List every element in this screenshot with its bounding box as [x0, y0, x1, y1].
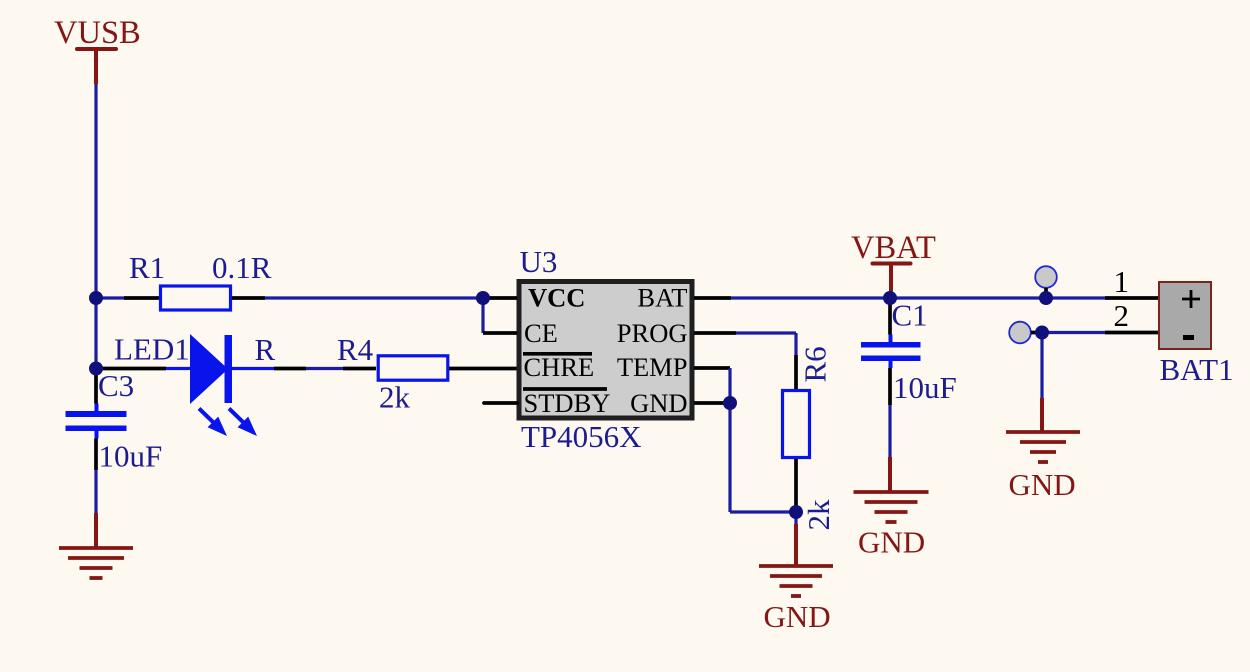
svg-text:GND: GND [1009, 467, 1076, 502]
wire R4 to U3 CHRE [449, 367, 517, 371]
node junction LED row [89, 362, 103, 376]
svg-text:R1: R1 [129, 250, 165, 285]
svg-text:R: R [255, 332, 276, 367]
no-ERC marker circle row1 [1035, 266, 1057, 293]
wire R6 junction to ground stem [794, 506, 797, 524]
pin GND [694, 401, 724, 405]
resistor R4 [337, 332, 448, 415]
wire BAT row [731, 296, 1105, 299]
node junction row2 [1035, 326, 1049, 340]
svg-text:10uF: 10uF [99, 439, 163, 474]
wire PROG to R6 [736, 333, 796, 355]
svg-text:R6: R6 [798, 346, 833, 382]
resistor R1 [124, 250, 272, 310]
svg-text:PROG: PROG [617, 318, 688, 348]
node junction VUSB/R1 [89, 291, 103, 305]
power port VBAT [851, 230, 936, 298]
pin to BAT1 pin2 [1105, 331, 1158, 335]
svg-text:10uF: 10uF [893, 370, 957, 405]
svg-text:GND: GND [630, 388, 687, 418]
svg-text:GND: GND [764, 599, 831, 634]
svg-text:VCC: VCC [528, 283, 585, 313]
svg-text:U3: U3 [520, 244, 558, 279]
svg-text:BAT1: BAT1 [1160, 352, 1234, 387]
pin CE [483, 331, 517, 335]
pin PROG [694, 331, 736, 335]
svg-text:CE: CE [524, 318, 558, 348]
wire LED to R4 [274, 367, 306, 371]
wire C3 to ground [94, 470, 97, 513]
ground under R6 [759, 524, 833, 634]
svg-text:0.1R: 0.1R [212, 250, 272, 285]
no-ERC marker circle row2 [1009, 322, 1036, 344]
svg-text:C1: C1 [892, 298, 928, 333]
capacitor C1 [861, 298, 957, 406]
pin STDBY stub [484, 401, 517, 405]
svg-text:LED1: LED1 [114, 332, 190, 367]
wire row2 down to ground [1040, 333, 1043, 399]
svg-text:GND: GND [858, 525, 925, 560]
pin to BAT1 pin1 [1105, 296, 1158, 300]
pin BAT [694, 296, 731, 300]
pin TEMP [694, 366, 730, 370]
diode LED1 [96, 332, 274, 437]
ground under C1 [854, 457, 929, 560]
svg-text:VUSB: VUSB [54, 15, 141, 51]
connector BAT1 [1159, 282, 1234, 387]
node junction VBAT [883, 291, 897, 305]
capacitor C3 [66, 368, 163, 474]
node junction at U3 VCC/CE [476, 291, 490, 305]
svg-text:2: 2 [1114, 298, 1130, 333]
wire row A left [96, 296, 124, 299]
ground left [59, 513, 133, 578]
wire TEMP down [730, 368, 796, 512]
wire row2 to BAT1 [1042, 331, 1105, 334]
svg-text:R4: R4 [337, 332, 374, 367]
svg-text:2k: 2k [801, 499, 836, 531]
svg-text:1: 1 [1114, 264, 1130, 299]
svg-text:VBAT: VBAT [851, 230, 936, 266]
node junction R6 bottom [789, 505, 803, 519]
svg-text:2k: 2k [379, 380, 411, 415]
pin VCC [483, 296, 517, 300]
ground right [1006, 398, 1080, 502]
svg-text:BAT: BAT [637, 283, 687, 313]
wire VUSB vertical [94, 84, 97, 369]
node junction row1 [1039, 291, 1053, 305]
node junction GND pin [723, 396, 737, 410]
resistor R6 [783, 346, 837, 530]
wire CE elbow [481, 298, 484, 333]
op-amp U3 TP4056X [519, 244, 692, 454]
wire R1 to U3 [265, 296, 483, 299]
svg-text:C3: C3 [98, 368, 134, 403]
svg-text:TEMP: TEMP [617, 352, 688, 382]
svg-text:TP4056X: TP4056X [521, 419, 642, 454]
svg-text:CHRE: CHRE [524, 352, 595, 382]
svg-text:STDBY: STDBY [524, 388, 611, 418]
power port VUSB [54, 15, 141, 84]
wire C1 to ground [888, 405, 891, 457]
